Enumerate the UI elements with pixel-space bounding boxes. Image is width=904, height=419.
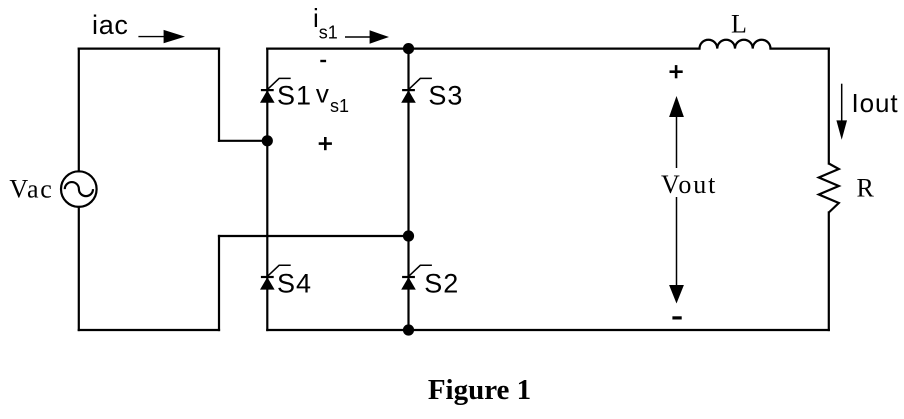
wire: right bridge leg — [407, 49, 409, 330]
resistor R — [819, 164, 839, 213]
svg-text:Vac: Vac — [9, 175, 53, 204]
Iout arrow — [836, 84, 847, 140]
svg-text:v: v — [316, 79, 329, 109]
label minus of v_s1 — [320, 60, 326, 62]
wire: left bridge leg — [266, 49, 268, 330]
wire: bottom rail — [267, 329, 829, 331]
arrow for i_s1 — [345, 30, 389, 43]
node A junction dot (left leg) — [262, 135, 273, 146]
node junction dot (right leg top) — [403, 43, 414, 54]
wire: right rail above resistor — [828, 49, 830, 164]
svg-text:iac: iac — [92, 10, 129, 40]
label plus of Vout — [670, 65, 683, 78]
wire: into right bridge junction B — [219, 235, 409, 237]
svg-text:s1: s1 — [319, 23, 338, 43]
node junction dot (right leg bottom) — [403, 324, 414, 335]
thyristor S1 — [261, 78, 291, 102]
svg-text:Vout: Vout — [661, 170, 717, 199]
Vout double arrow — [669, 96, 684, 304]
wire: right rail below resistor — [828, 213, 830, 331]
svg-text:R: R — [857, 174, 875, 203]
inductor L — [700, 40, 771, 49]
thyristor S4 — [261, 265, 291, 289]
node B junction dot (right leg middle) — [403, 230, 414, 241]
wire: top rail right of inductor to corner — [771, 47, 829, 49]
wire: step down at x=219 — [218, 49, 220, 141]
svg-text:S1: S1 — [277, 80, 312, 110]
svg-text:S4: S4 — [277, 268, 312, 298]
svg-text:L: L — [731, 10, 747, 39]
svg-text:Iout: Iout — [852, 88, 899, 118]
svg-text:Figure 1: Figure 1 — [428, 374, 531, 406]
wire: step up at x=219 — [218, 236, 220, 330]
arrow for iac — [138, 30, 185, 43]
label i_s1 — [313, 3, 338, 43]
svg-text:s1: s1 — [330, 96, 349, 116]
wire: bottom-left horizontal from source — [79, 329, 219, 331]
svg-text:S2: S2 — [424, 268, 459, 298]
label v_s1 — [316, 79, 349, 116]
thyristor S3 — [402, 78, 432, 102]
svg-text:S3: S3 — [428, 80, 463, 110]
wire: top-left horizontal from source to step — [79, 47, 219, 49]
wire: bridge top rail left of inductor — [267, 47, 699, 49]
label minus of Vout — [672, 316, 681, 319]
wire: into left bridge junction A — [219, 140, 267, 142]
wire: AC source top lead up to top rail — [78, 49, 80, 172]
thyristor S2 — [402, 265, 432, 289]
label plus of v_s1 — [319, 137, 332, 150]
wire: AC source bottom lead down — [78, 207, 80, 330]
AC source Vac circle — [61, 171, 97, 207]
